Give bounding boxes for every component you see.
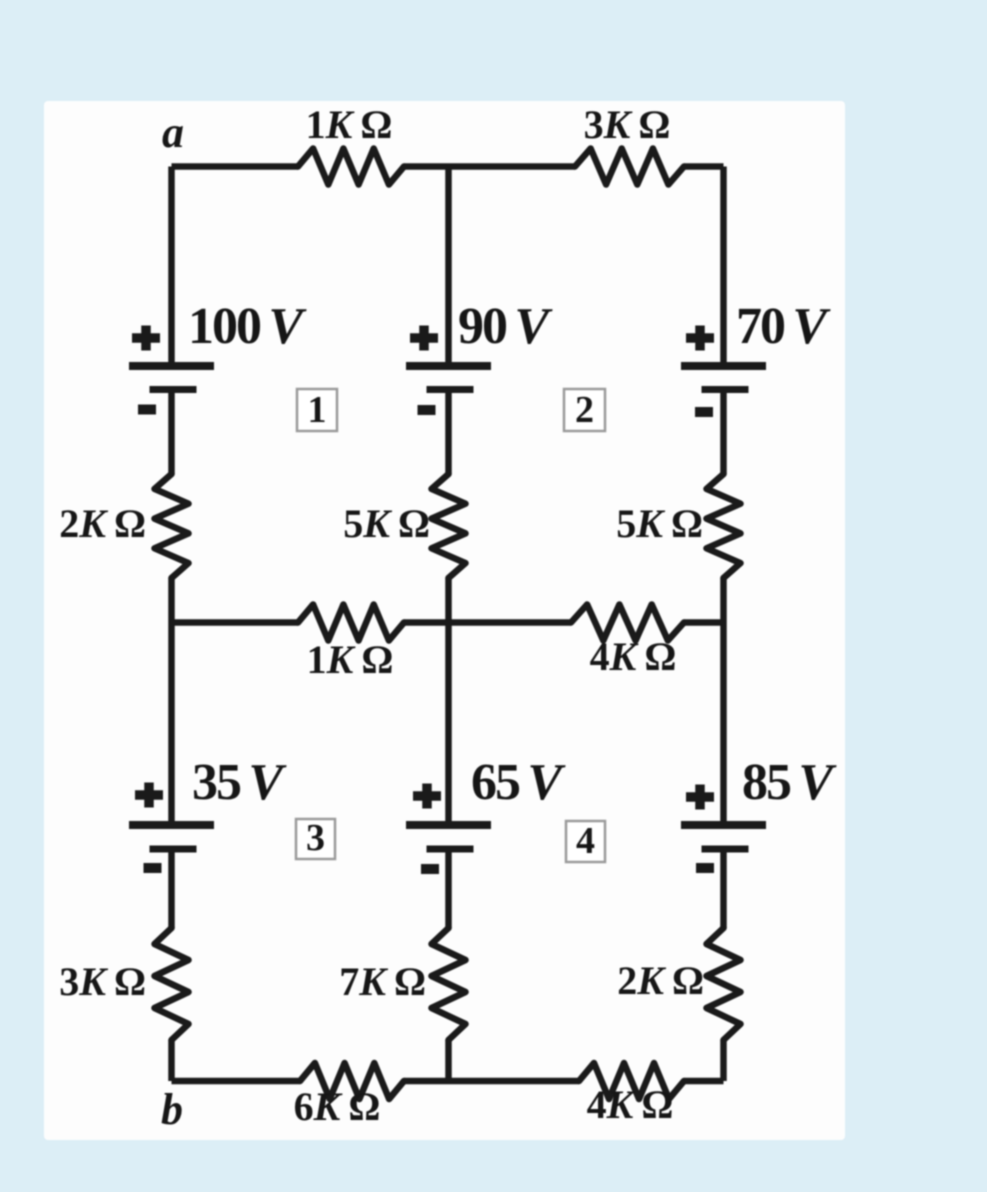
battery V4 35V — [129, 825, 214, 849]
svg-text:1K Ω: 1K Ω — [306, 102, 393, 147]
svg-text:35 V: 35 V — [192, 754, 287, 811]
wire: bottom rail, node b to R11 — [172, 1078, 301, 1085]
wire: left column, lower resistor to bottom rail — [168, 1040, 175, 1081]
wire: middle column, top rail to battery — [445, 167, 452, 367]
svg-text:3K Ω: 3K Ω — [59, 959, 146, 1004]
svg-text:4K Ω: 4K Ω — [590, 634, 677, 679]
resistor R2 3KΩ (top right) — [575, 149, 684, 185]
wire: middle column, lower resistor to bottom rail — [445, 1040, 452, 1081]
V4 plus sign — [135, 783, 163, 808]
wire: right column, lower resistor to bottom rail — [720, 1040, 727, 1081]
wire: right column, upper resistor to middle rail and down to lower battery — [720, 578, 727, 825]
resistor R8 4KΩ (middle right) — [571, 605, 684, 641]
wire: middle column, lower battery to lower resistor — [445, 849, 452, 928]
V2 plus sign — [410, 326, 438, 351]
wire: middle column, battery to upper resistor — [445, 390, 452, 475]
V2 minus sign — [418, 405, 436, 415]
V4 minus sign — [144, 863, 162, 873]
loop label 2 — [564, 389, 605, 431]
wire: middle rail, R8 to right junction — [684, 619, 724, 626]
resistor R4 5KΩ (middle upper) — [432, 474, 466, 578]
svg-text:5K Ω: 5K Ω — [343, 501, 430, 546]
svg-text:65 V: 65 V — [471, 754, 566, 811]
resistor R5 5KΩ (right upper) — [707, 474, 741, 578]
V5 minus sign — [421, 864, 439, 874]
V6 minus sign — [696, 863, 714, 873]
svg-text:4K Ω: 4K Ω — [587, 1082, 674, 1127]
svg-text:b: b — [161, 1085, 183, 1134]
V3 minus sign — [695, 407, 713, 417]
svg-text:4: 4 — [576, 820, 595, 862]
resistor R10 7KΩ (middle lower) — [432, 928, 466, 1040]
loop label 1 — [297, 389, 337, 431]
svg-text:7K Ω: 7K Ω — [339, 959, 426, 1004]
svg-text:1K Ω: 1K Ω — [307, 637, 394, 682]
V1 plus sign — [132, 326, 160, 351]
svg-text:70 V: 70 V — [736, 298, 831, 355]
wire: right column, lower battery to lower resistor — [720, 849, 727, 928]
battery V1 100V — [129, 366, 214, 390]
svg-text:6K Ω: 6K Ω — [294, 1084, 381, 1129]
wire: left column, battery to upper resistor — [168, 390, 175, 475]
svg-text:2K Ω: 2K Ω — [617, 958, 704, 1003]
wire: right column, top rail to battery — [720, 167, 727, 367]
svg-text:85 V: 85 V — [742, 754, 837, 811]
svg-text:2K Ω: 2K Ω — [59, 501, 146, 546]
wire: left column, lower battery to lower resistor — [168, 849, 175, 928]
wire: bottom rail, R12 to right corner — [684, 1078, 724, 1085]
svg-text:3K Ω: 3K Ω — [584, 102, 671, 147]
wire: top rail, R2 to right corner — [684, 163, 724, 170]
wire: middle rail, left junction to R7 — [172, 619, 299, 626]
battery V5 65V — [406, 825, 491, 849]
wire: bottom rail, R11 to R12 — [404, 1078, 579, 1085]
resistor R3 2KΩ (left upper) — [155, 474, 189, 578]
V5 plus sign — [413, 784, 441, 809]
wire: top rail, node a to R1 — [172, 163, 299, 170]
V1 minus sign — [138, 405, 156, 415]
svg-text:90 V: 90 V — [458, 298, 553, 355]
battery V2 90V — [406, 366, 491, 390]
wire: middle column, upper resistor to middle rail and down to lower battery — [445, 578, 452, 825]
resistor R6 2KΩ (right lower) — [707, 928, 741, 1040]
svg-text:100 V: 100 V — [188, 298, 307, 355]
loop label 4 — [566, 820, 605, 862]
battery V3 70V — [681, 366, 766, 390]
svg-text:2: 2 — [575, 389, 594, 431]
resistor R11 6KΩ (bottom left) — [300, 1063, 404, 1099]
resistor R9 3KΩ (left lower) — [155, 928, 189, 1040]
svg-text:a: a — [162, 108, 184, 157]
wire: middle rail, R7 to R8 — [404, 619, 571, 626]
wire: left column, top rail to battery — [168, 167, 175, 367]
svg-text:3: 3 — [306, 817, 325, 859]
wire: left column, upper resistor to middle rail and down to lower battery — [168, 578, 175, 825]
wire: top rail, R1 to R2 — [404, 163, 575, 170]
svg-text:5K Ω: 5K Ω — [616, 501, 703, 546]
wire: right column, battery to upper resistor — [720, 390, 727, 475]
V6 plus sign — [686, 785, 714, 810]
resistor R1 1KΩ (top left) — [298, 149, 404, 185]
white drawing panel — [44, 101, 845, 1140]
V3 plus sign — [686, 326, 714, 351]
battery V6 85V — [681, 825, 766, 849]
loop label 3 — [296, 817, 335, 859]
resistor R12 4KΩ (bottom right) — [579, 1063, 684, 1099]
resistor R7 1KΩ (middle left) — [298, 605, 404, 641]
svg-text:1: 1 — [308, 389, 327, 431]
